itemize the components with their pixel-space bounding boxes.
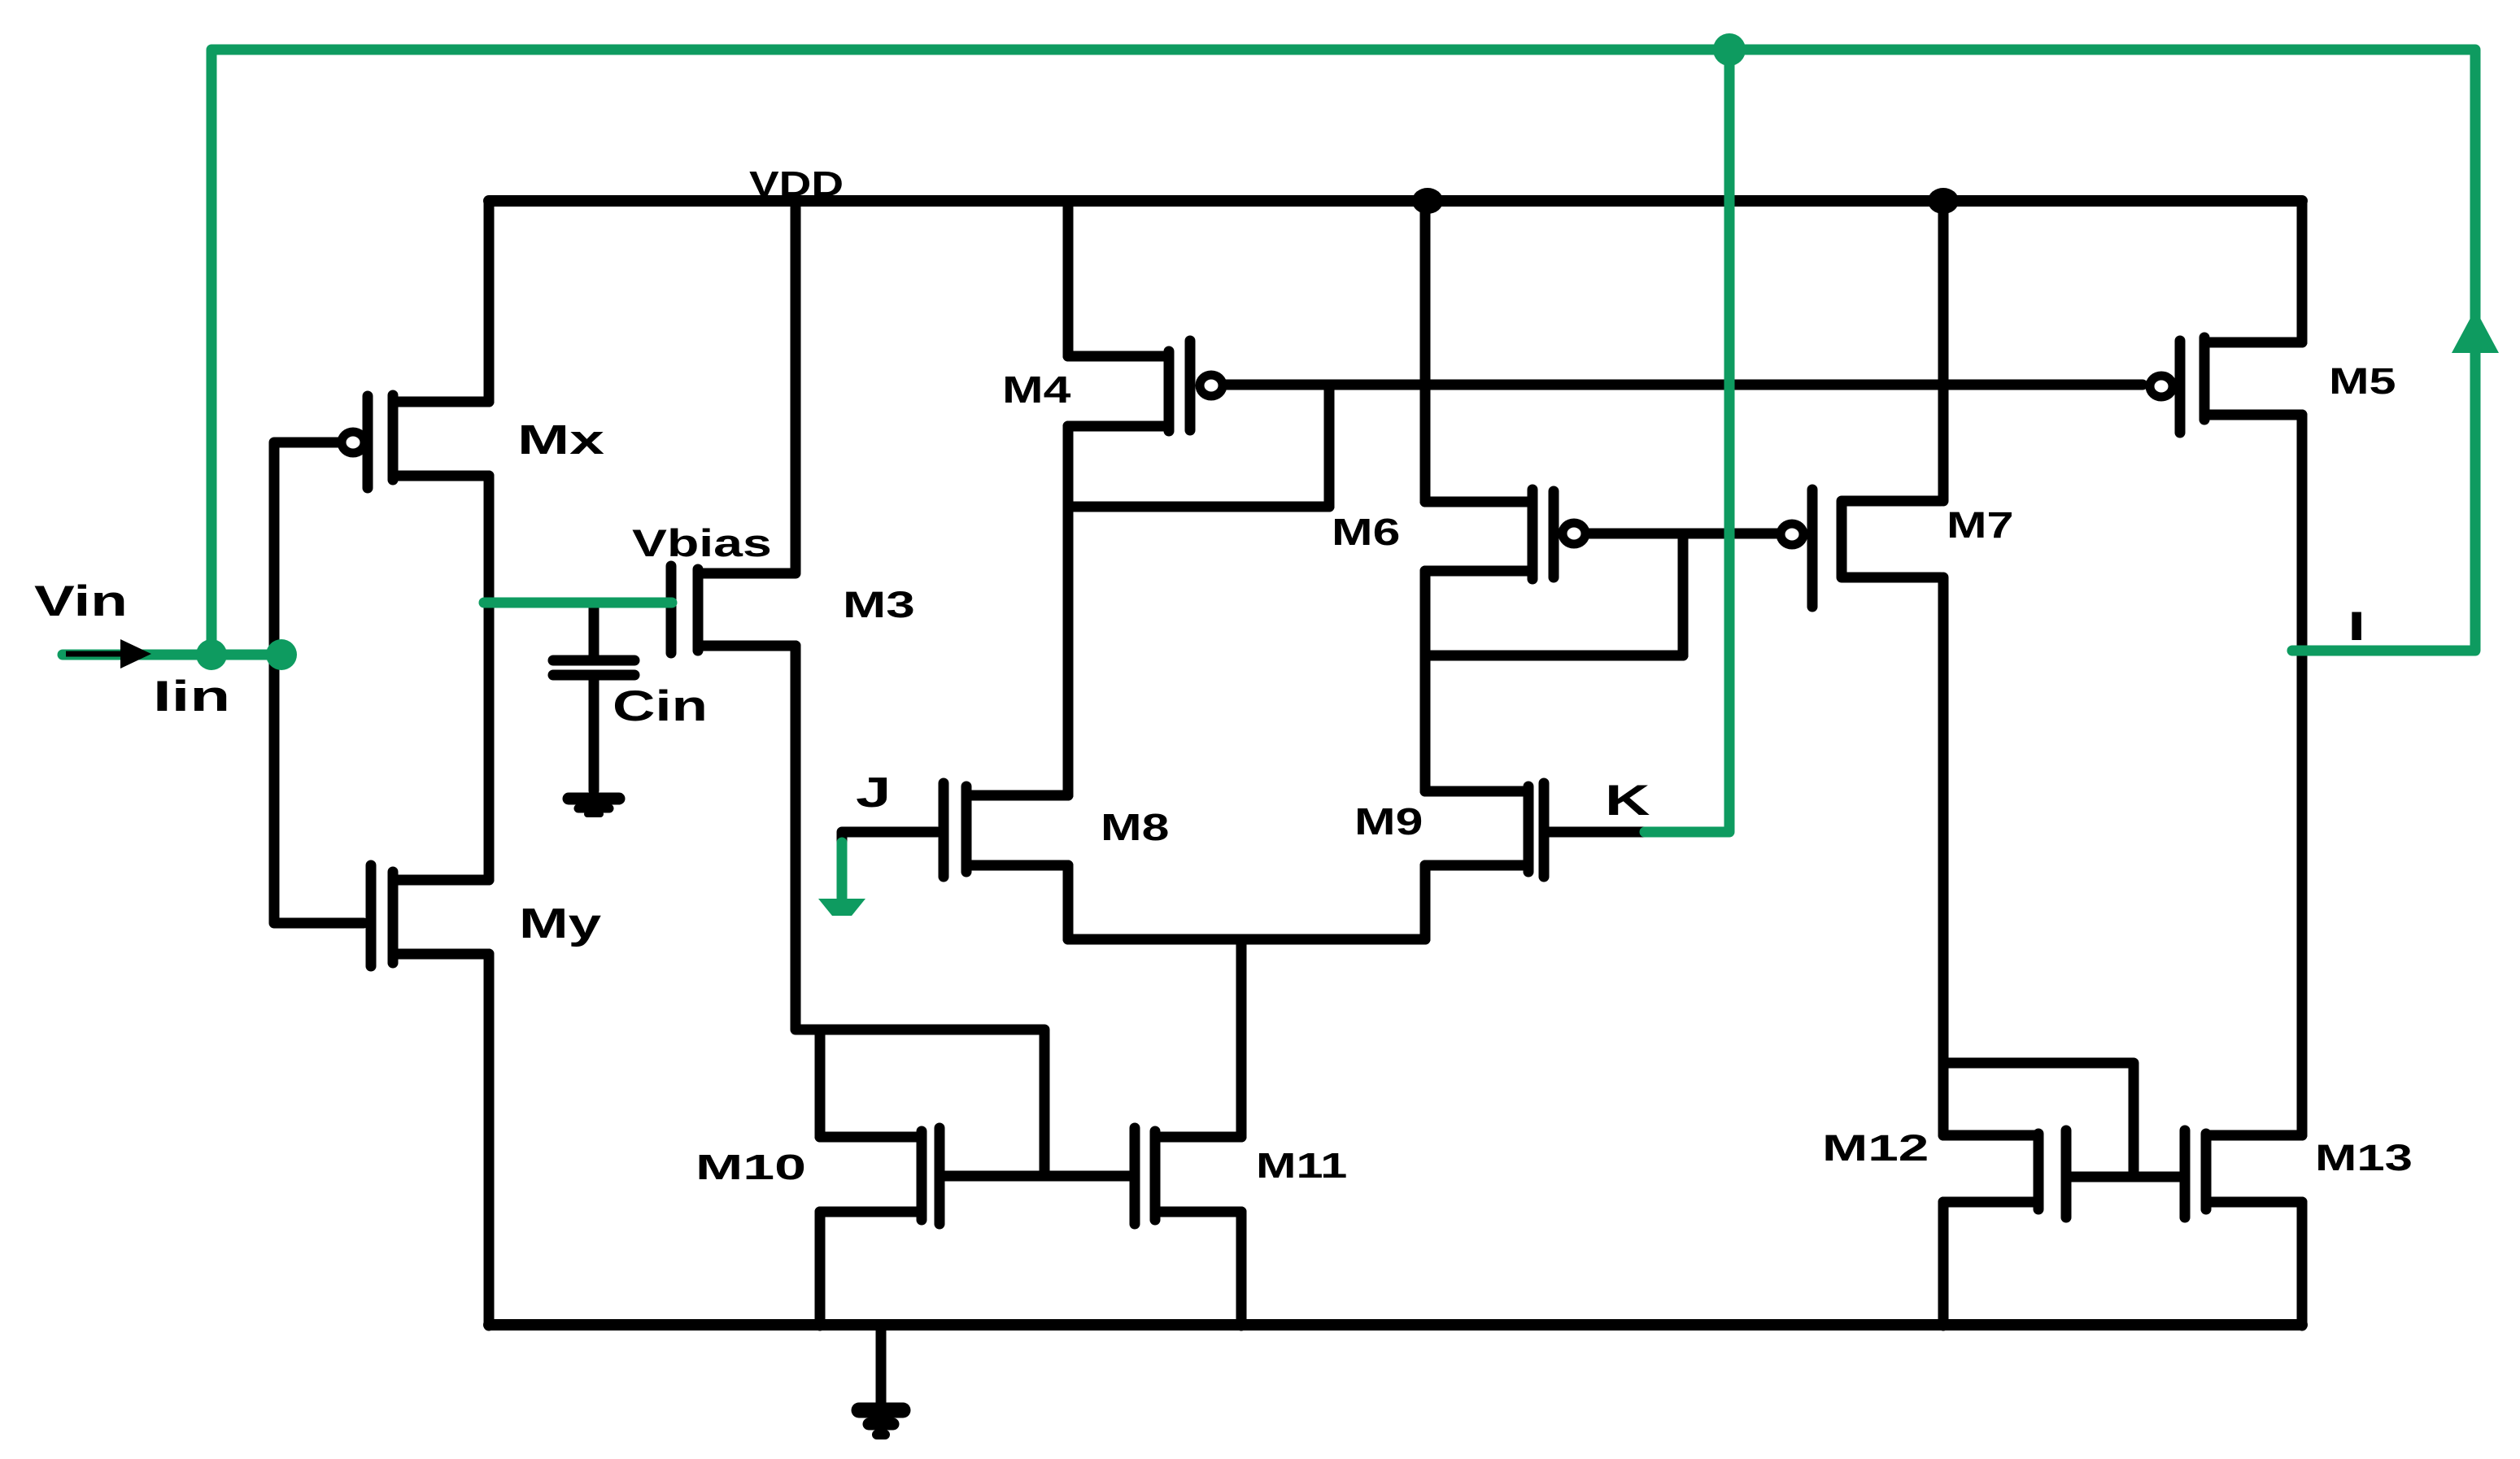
svg-text:M8: M8 [1101,807,1169,848]
svg-text:Mx: Mx [517,416,604,463]
svg-text:M13: M13 [2315,1138,2413,1178]
svg-text:I: I [2348,604,2365,649]
svg-text:Iin: Iin [153,672,230,720]
svg-text:Cin: Cin [613,682,708,729]
svg-text:M9: M9 [1354,801,1423,843]
svg-text:M5: M5 [2329,361,2396,402]
svg-text:J: J [856,769,891,817]
svg-text:Vbias: Vbias [632,521,772,564]
svg-text:M6: M6 [1332,512,1400,553]
svg-text:My: My [519,900,601,947]
svg-text:VDD: VDD [749,163,844,203]
svg-text:M12: M12 [1822,1128,1929,1169]
svg-text:M3: M3 [843,584,915,625]
svg-text:M11: M11 [1256,1146,1347,1186]
svg-text:Vin: Vin [34,577,128,625]
svg-text:M4: M4 [1002,369,1070,411]
svg-text:M7: M7 [1947,505,2014,546]
svg-text:K: K [1605,776,1650,824]
svg-text:M10: M10 [695,1148,806,1187]
